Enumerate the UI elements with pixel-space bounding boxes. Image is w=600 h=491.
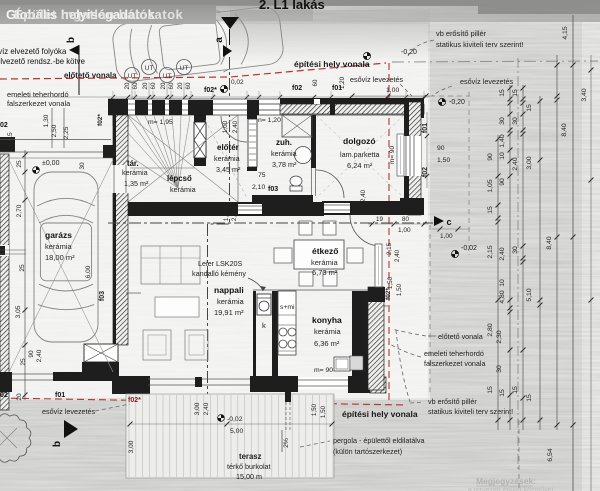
top dark strip [0,0,600,5]
svg-text:vb erősítő pillér: vb erősítő pillér [428,397,477,406]
level marker garage [33,167,40,174]
svg-text:60: 60 [150,82,157,89]
svg-text:6,00: 6,00 [85,265,92,278]
svg-text:statikus kiviteli terv szerint: statikus kiviteli terv szerint! [428,407,513,416]
svg-text:60: 60 [185,82,192,89]
svg-text:±0,00: ±0,00 [42,160,60,167]
armchair 1 [143,330,171,360]
svg-text:étkező: étkező [312,246,338,256]
svg-text:60: 60 [132,82,139,89]
svg-text:kerámia: kerámia [311,258,339,267]
dimension chain x540 [539,96,541,430]
svg-text:1,00: 1,00 [223,208,230,221]
front wall dark segment [112,376,148,392]
svg-text:vb erősítő pillér: vb erősítő pillér [436,29,487,38]
top right dark bar [478,0,600,14]
garage bottom wall band [53,372,119,381]
window dim line right wall [426,112,428,188]
svg-text:2%: 2% [283,438,290,448]
svg-text:20: 20 [160,82,167,89]
konyha bottom wall right [348,376,370,393]
glass wall etkezo-terrace east [375,244,382,287]
svg-text:Leier LSK20S: Leier LSK20S [198,259,243,268]
white plan area [0,22,430,400]
svg-text:1,40: 1,40 [499,134,506,147]
svg-text:f02*: f02* [128,397,141,404]
window glazing lines top wall [128,103,280,105]
svg-text:1,50: 1,50 [387,276,394,289]
svg-text:15: 15 [487,386,494,394]
svg-text:02: 02 [0,122,8,129]
front wall block mid [250,376,268,392]
top exterior wall base [108,99,424,115]
svg-text:8,40: 8,40 [546,236,553,249]
svg-text:1,50: 1,50 [320,405,327,418]
shower tray [282,115,312,137]
terrace dim line [130,423,332,425]
svg-text:1,50: 1,50 [437,157,450,164]
wall eloter-zuh top block [247,105,257,119]
svg-text:15,00 m: 15,00 m [236,472,262,481]
svg-text:1,35 m²: 1,35 m² [124,179,149,188]
svg-text:építési hely vonala: építési hely vonala [342,409,418,419]
dashed eloteto line right lower [429,225,431,395]
garage cross lines [9,160,113,372]
right edge chain [590,55,592,491]
entry door gap f02* [213,103,247,105]
door dim right of c [432,228,470,230]
window f02 segment [259,103,280,105]
svg-text:60: 60 [168,82,175,89]
red dash line to right gray [392,61,598,62]
right exterior wall hatch [408,102,421,215]
svg-text:k: k [262,321,266,330]
svg-text:02: 02 [0,392,8,399]
svg-text:f01: f01 [422,123,429,133]
front glass wall 2 [268,378,310,380]
svg-text:20: 20 [142,82,149,89]
garage door opening [12,373,53,375]
svg-text:25: 25 [19,264,26,272]
under-stair crossed box [84,344,118,362]
svg-text:1,00: 1,00 [386,87,399,94]
middle wall door opening [238,204,262,214]
konyha bottom opening [298,377,348,389]
door dim line at arc [368,223,428,225]
section line b [78,45,80,95]
pergola beam right block [103,145,115,158]
radiator in eloter-zuh wall [248,119,257,167]
svg-text:20: 20 [16,393,23,401]
gray scan region bottom [0,398,582,491]
svg-text:2,40: 2,40 [360,189,367,202]
dimension chain x523 [522,85,524,430]
svg-text:dolgozó: dolgozó [343,136,376,146]
svg-text:-0,20: -0,20 [449,99,465,106]
stair cross lines [128,115,238,202]
level marker -0,20 top [363,52,370,59]
tree [0,414,31,463]
svg-text:f02: f02 [422,167,429,177]
terrace area [126,394,334,478]
car in garage [34,172,98,342]
UT circle 2 [142,60,157,75]
dimension chain x573 full height [572,15,574,491]
svg-text:a: a [214,37,225,43]
svg-text:30: 30 [496,365,503,373]
konyha right wall hatch [368,287,384,390]
level marker -0,20 right [438,98,445,105]
pergola beam top-left block [0,137,15,152]
svg-text:3,45 m²: 3,45 m² [216,165,241,174]
svg-text:19,91 m²: 19,91 m² [214,308,244,317]
svg-text:falszerkezet vonala: falszerkezet vonala [7,99,71,108]
svg-text:1,00: 1,00 [222,120,229,133]
svg-text:2,40: 2,40 [512,157,519,170]
armchair 2 [185,330,208,360]
svg-text:kandalló kémény: kandalló kémény [192,269,246,278]
svg-text:2,15: 2,15 [487,245,494,258]
svg-text:m= 1,95: m= 1,95 [148,119,173,126]
svg-text:UT: UT [128,73,137,80]
svg-text:-0,20: -0,20 [401,49,417,56]
dolgozo door opening [322,203,350,213]
red vertical building line [388,63,390,405]
svg-text:emeleti teherhordó: emeleti teherhordó [424,349,484,358]
svg-text:UT: UT [145,65,154,72]
fireplace kandallo [257,294,271,315]
left wall bottom block [82,362,119,378]
svg-text:m= 90: m= 90 [314,367,333,374]
level marker -0,02 right [451,250,458,257]
svg-text:2,50: 2,50 [51,124,58,137]
dish rack [350,356,363,370]
svg-text:kerámia: kerámia [314,327,342,336]
garage top edge line [9,157,113,159]
red dash line eloteto [0,63,386,79]
svg-text:f02*: f02* [97,114,104,126]
svg-text:1,00: 1,00 [398,227,411,234]
right wall bottom corner [400,198,424,215]
svg-text:2,15: 2,15 [386,242,393,255]
svg-text:3,00: 3,00 [194,402,201,415]
svg-text:1,30: 1,30 [43,114,50,127]
svg-text:emeleti teherhordó: emeleti teherhordó [7,90,69,99]
svg-text:30: 30 [79,162,86,170]
dolgozo door arc [350,215,381,246]
svg-text:2. L1 lakás: 2. L1 lakás [259,0,325,12]
section line a [208,57,230,470]
right wall upper dark [404,102,409,136]
svg-text:15: 15 [526,104,533,112]
svg-text:1,05: 1,05 [487,179,494,192]
gray scan region right [428,10,582,491]
svg-text:-0,02: -0,02 [461,245,477,252]
svg-text:90: 90 [499,178,506,186]
svg-text:19: 19 [376,216,383,223]
UT circle 3 [160,68,175,83]
svg-text:térkő burkolat: térkő burkolat [227,462,271,471]
svg-text:esővíz levezetés: esővíz levezetés [42,407,96,416]
dolgozo door from zuh side [311,168,313,196]
svg-text:ékvíz elvezető folyóka: ékvíz elvezető folyóka [0,47,67,56]
svg-text:esővíz levezetés: esővíz levezetés [350,75,404,84]
downpipe below wall [285,392,291,402]
top wall pillar 6 [247,100,259,115]
svg-text:30: 30 [499,117,506,125]
svg-text:4,80: 4,80 [499,290,506,303]
svg-text:2,40: 2,40 [499,247,506,260]
svg-text:2,25: 2,25 [63,126,70,139]
svg-text:6,36 m²: 6,36 m² [314,339,340,348]
top wall pillar 5 wide [188,100,213,115]
wall zuh-dolgozo [311,115,316,168]
svg-text:90: 90 [28,350,35,358]
svg-text:6,24 m²: 6,24 m² [347,161,373,170]
svg-text:f02: f02 [292,85,302,92]
svg-text:90: 90 [437,145,445,152]
UT circle 1 [125,68,140,83]
svg-text:a tervezett épület közművei: a tervezett épület közművei [468,487,554,491]
fence gap left strip [0,245,9,256]
svg-text:2,10: 2,10 [231,208,238,221]
svg-text:30: 30 [512,246,519,254]
kitchen boundary line [253,289,385,291]
top wall pillar 2 [135,100,148,115]
kitchen left border [253,291,256,376]
svg-text:60: 60 [312,79,319,86]
svg-text:2,70: 2,70 [16,204,23,217]
top wall pillar 3 [152,100,165,115]
konyha bottom wall [268,376,298,392]
svg-text:f01: f01 [332,85,342,92]
svg-text:c: c [446,217,451,227]
section marker c [434,216,444,226]
sofa [141,246,200,284]
axis dash line x518 [517,58,519,470]
dashed canopy line right [468,92,470,255]
dining chairs [299,221,312,235]
eloter door arc [221,116,247,142]
dimension chain x510 [509,85,511,430]
section marker b top [69,45,79,55]
svg-text:f01: f01 [55,392,65,399]
svg-text:2,40: 2,40 [232,120,239,133]
svg-text:kerámia: kerámia [122,168,148,177]
svg-text:4,15: 4,15 [562,26,569,39]
section marker b bottom [64,420,78,438]
stove [279,328,287,336]
dimension chain x557 [556,55,558,430]
dash line bottom right [518,420,520,491]
red bottom building line [0,398,404,405]
eloter diagonal dash [205,120,247,198]
dolgozo bottom wall [322,201,424,215]
svg-text:2,40: 2,40 [203,402,210,415]
top gradient band [230,0,600,22]
garage-tar door gap [111,165,130,193]
svg-text:tár.: tár. [127,159,139,168]
svg-text:15: 15 [499,89,506,97]
svg-text:f03: f03 [268,186,278,193]
svg-text:10: 10 [499,279,506,287]
svg-text:f03: f03 [99,291,106,301]
svg-text:előtér: előtér [217,143,239,152]
washbasin [295,147,312,164]
konyha top-right pillar [368,287,385,302]
kitchen counter divider [272,291,278,376]
konyha right wall dark [352,291,368,390]
svg-text:kerámia: kerámia [45,242,73,251]
svg-text:UT: UT [163,73,172,80]
svg-text:konyha: konyha [312,315,342,325]
svg-text:15: 15 [512,89,519,97]
svg-text:lépcső: lépcső [167,174,192,183]
top wall corner pillar [108,99,128,115]
left exterior wall [113,115,128,345]
svg-text:6,54: 6,54 [547,448,554,461]
svg-text:75: 75 [258,172,266,179]
svg-text:lam.parketta: lam.parketta [340,150,380,159]
svg-text:8,40: 8,40 [561,123,568,136]
top wall divider f01 [330,98,335,115]
svg-text:-0,02: -0,02 [227,416,243,423]
svg-text:2,10: 2,10 [252,184,265,191]
front glass wall nappali [148,378,250,380]
svg-text:2,30: 2,30 [496,330,503,343]
svg-text:falszerkezet vonala: falszerkezet vonala [424,359,486,368]
svg-text:90: 90 [487,153,494,161]
svg-text:nappali: nappali [214,285,244,295]
svg-text:b: b [66,37,77,43]
stair landing line [128,167,195,169]
svg-text:1,50: 1,50 [311,403,318,416]
svg-text:15: 15 [512,386,519,394]
left chain upper [51,108,53,148]
svg-text:építési hely vonala: építési hely vonala [294,59,370,69]
extra double ticks right chains [508,101,513,106]
dimension chain x498 [497,135,499,430]
zuh bottom wall [252,195,313,203]
svg-text:20: 20 [124,82,131,89]
svg-text:esővíz levezetés: esővíz levezetés [460,77,514,86]
svg-text:2,40: 2,40 [394,249,401,262]
top band fade [0,0,1,1]
svg-text:kerámia: kerámia [271,149,297,158]
svg-text:kerámia: kerámia [214,154,240,163]
svg-text:kerámia: kerámia [217,297,245,306]
pergola beam lines [0,139,111,141]
kitchen sink unit bottom [334,357,350,371]
right wall lower dark [404,176,409,200]
svg-text:3,05: 3,05 [15,305,22,318]
garage left boundary wall [0,154,9,410]
svg-text:30: 30 [512,117,519,125]
garage bottom wall block right [112,376,150,394]
dining table [294,240,344,269]
svg-text:zuh.: zuh. [276,138,292,147]
svg-text:5,00: 5,00 [230,428,243,435]
svg-text:80: 80 [402,216,409,223]
svg-text:3,00: 3,00 [526,156,533,169]
svg-text:25: 25 [16,160,23,168]
svg-text:kerámia: kerámia [170,185,196,194]
stair fan lines [128,116,178,188]
section marker a [221,17,239,29]
UT extension lines [131,82,133,99]
top wall solid segment [280,98,424,104]
UT circle 4 [177,60,192,75]
extension lines above top wall [112,91,114,99]
left chain garage [24,150,26,400]
svg-text:(külön tartószerkezet): (külön tartószerkezet) [333,447,402,456]
svg-text:3,40: 3,40 [581,88,588,101]
f03 lintel line [126,292,141,294]
top wall pillar 4 [169,100,182,115]
dolgozo diagonal dashes [316,115,404,198]
dolgozo radiator [397,134,404,176]
svg-text:garázs: garázs [45,230,72,240]
middle wall [116,202,324,216]
svg-text:m= 90: m= 90 [389,145,396,164]
svg-text:18,00 m²: 18,00 m² [45,253,75,262]
svg-text:z.elvezető rendsz.-be kötve: z.elvezető rendsz.-be kötve [0,57,85,66]
car top (parking) [111,3,285,85]
svg-text:f02*: f02* [204,87,217,94]
watermark box top-left [0,0,1,1]
wc [290,176,302,186]
svg-text:2,80: 2,80 [487,323,494,336]
top wall right corner [406,98,424,118]
garage bottom wall block left [0,372,12,392]
coffee table [155,297,199,317]
svg-text:0,02: 0,02 [231,79,244,86]
svg-text:1,50: 1,50 [396,283,403,296]
svg-text:3,00: 3,00 [128,440,135,453]
svg-text:2,40: 2,40 [36,349,43,362]
svg-text:Épület ingatlan hálózatok: Épület ingatlan hálózatok [14,7,184,22]
right wall window f01/f02 [404,136,421,176]
svg-text:6,73 m²: 6,73 m² [312,268,338,277]
svg-text:b: b [52,441,63,447]
svg-text:statikus kiviteli terv szerint: statikus kiviteli terv szerint! [436,40,523,49]
svg-text:15: 15 [7,132,14,140]
svg-text:20: 20 [177,82,184,89]
svg-text:15: 15 [487,206,494,214]
svg-text:10: 10 [499,152,506,160]
svg-text:s+mi: s+mi [280,304,295,311]
svg-text:15: 15 [526,394,533,402]
kitchen counter cabinets [278,291,296,355]
top dimension line [15,96,430,98]
svg-text:Megjegyzések:: Megjegyzések: [476,476,536,486]
svg-text:terasz: terasz [239,452,262,461]
svg-text:3,78 m²: 3,78 m² [272,160,297,169]
svg-text:előtető vonala: előtető vonala [438,332,483,341]
svg-text:25: 25 [20,358,27,366]
svg-text:UT: UT [180,65,189,72]
svg-text:pergola - épülettől eldilatálv: pergola - épülettől eldilatálva [333,436,425,445]
svg-text:15: 15 [499,389,506,397]
section line c [108,222,433,224]
svg-text:n= 1,20: n= 1,20 [258,117,281,124]
svg-text:1,00: 1,00 [440,233,453,240]
eloter left shaft column [194,115,206,122]
svg-text:5,10: 5,10 [526,288,533,301]
